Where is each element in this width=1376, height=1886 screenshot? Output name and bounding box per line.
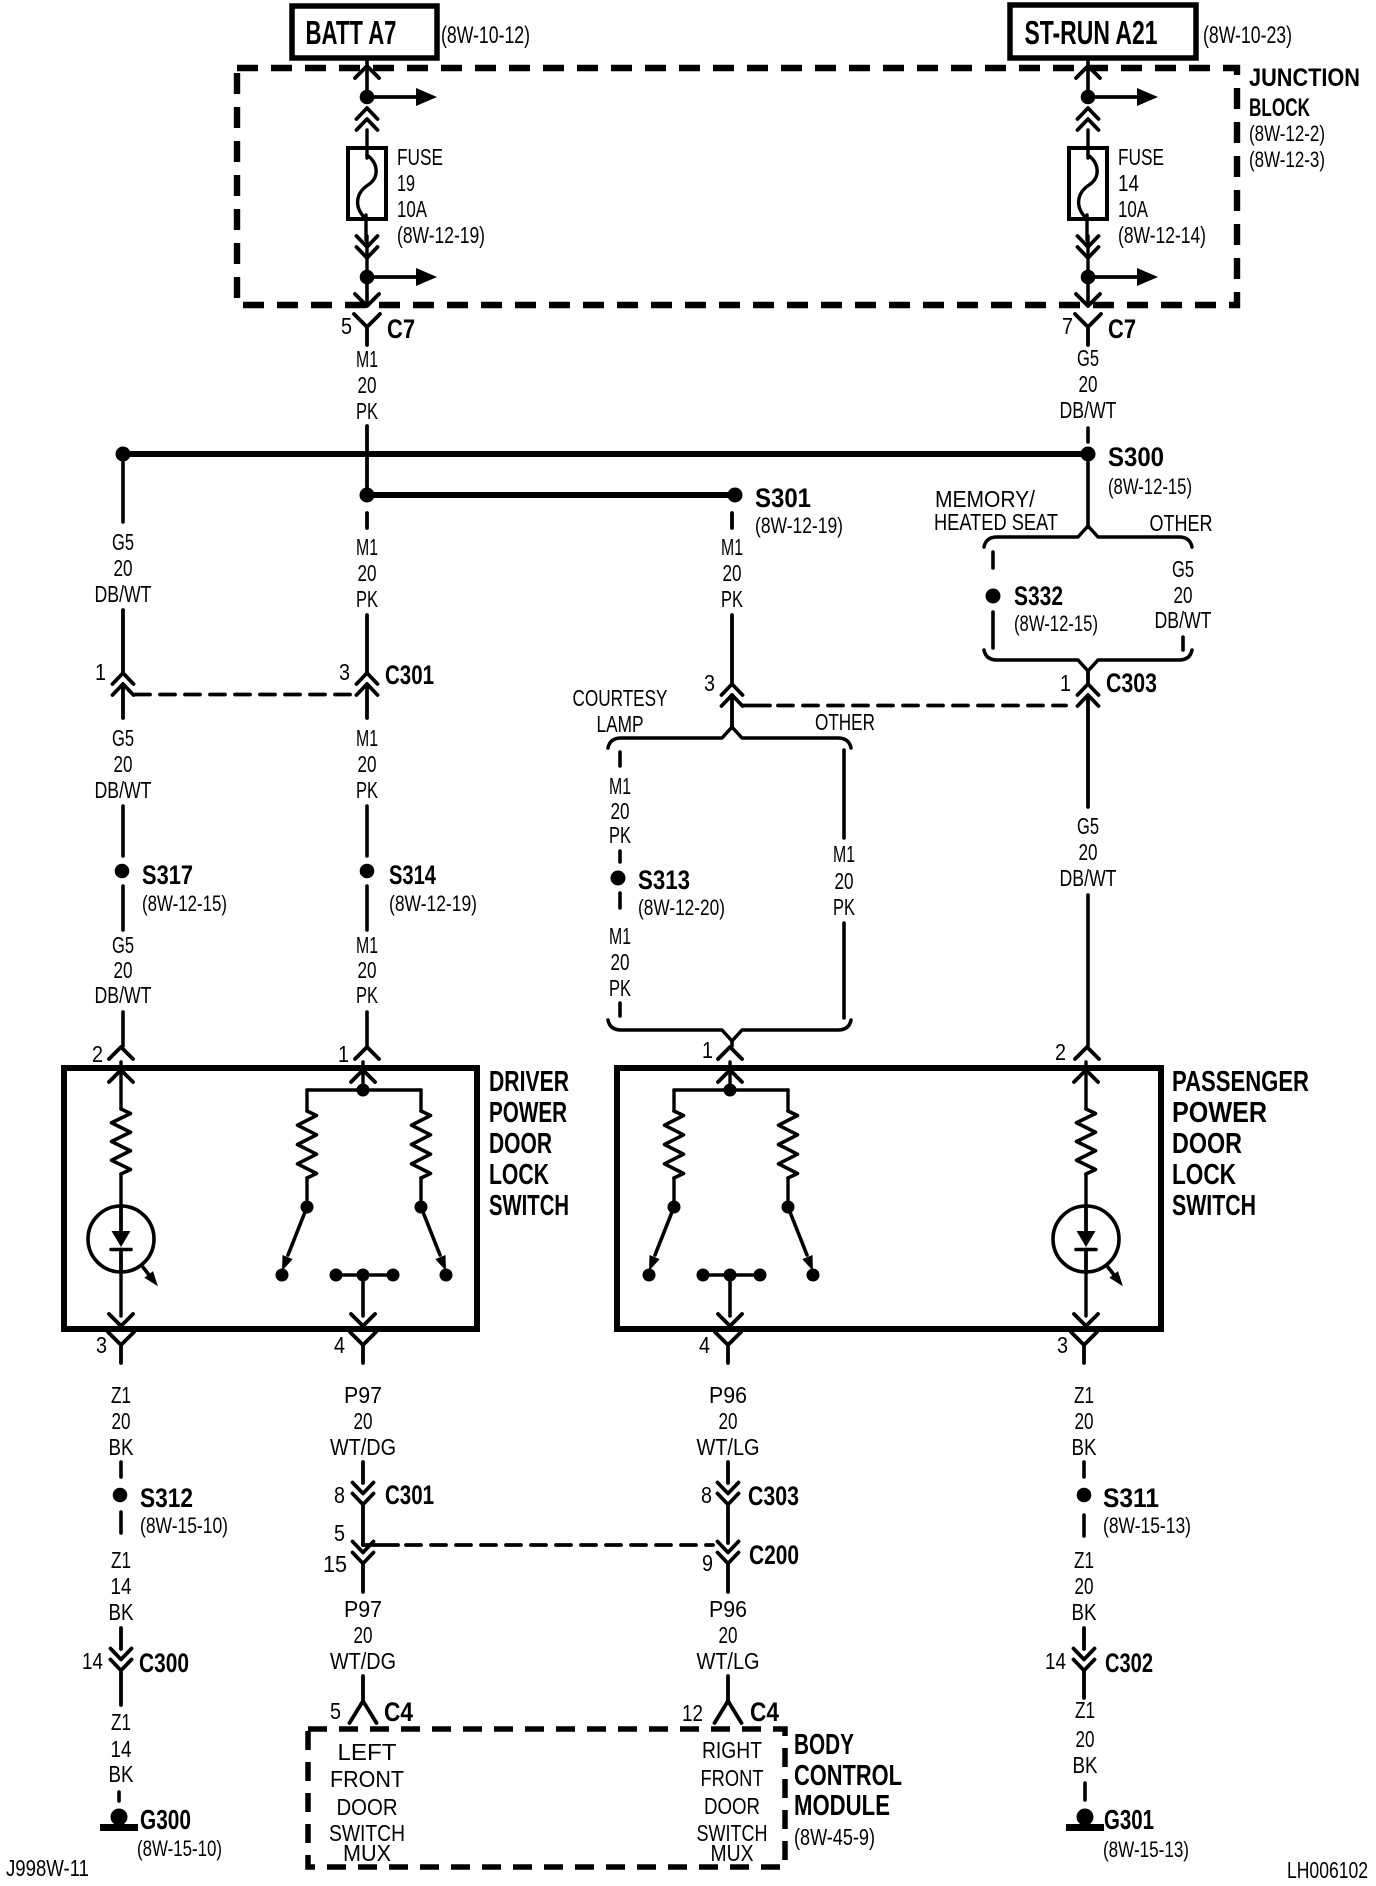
svg-text:FUSE: FUSE <box>1118 144 1164 170</box>
svg-text:DOOR: DOOR <box>489 1128 552 1160</box>
svg-text:WT/DG: WT/DG <box>330 1434 396 1460</box>
svg-text:LAMP: LAMP <box>597 711 644 737</box>
svg-text:M1: M1 <box>356 346 378 372</box>
svg-text:4: 4 <box>334 1332 345 1358</box>
svg-text:G5: G5 <box>112 529 134 555</box>
svg-text:20: 20 <box>1079 839 1098 865</box>
svg-text:(8W-12-14): (8W-12-14) <box>1118 222 1206 248</box>
svg-text:MUX: MUX <box>343 1840 391 1866</box>
svg-text:(8W-15-13): (8W-15-13) <box>1103 1837 1189 1862</box>
svg-text:BATT A7: BATT A7 <box>306 14 397 51</box>
svg-text:Z1: Z1 <box>111 1547 131 1573</box>
svg-text:FRONT: FRONT <box>701 1765 764 1791</box>
svg-text:(8W-12-19): (8W-12-19) <box>389 891 477 916</box>
svg-text:20: 20 <box>358 560 377 586</box>
svg-text:C301: C301 <box>385 1480 434 1510</box>
svg-text:WT/DG: WT/DG <box>330 1648 396 1674</box>
svg-text:WT/LG: WT/LG <box>697 1648 760 1674</box>
svg-text:9: 9 <box>702 1550 713 1576</box>
svg-text:C300: C300 <box>139 1648 189 1678</box>
svg-text:M1: M1 <box>356 725 378 751</box>
svg-text:PK: PK <box>833 894 855 920</box>
svg-text:20: 20 <box>835 868 854 894</box>
svg-text:20: 20 <box>719 1408 738 1434</box>
svg-text:2: 2 <box>92 1041 103 1067</box>
svg-text:G5: G5 <box>1077 345 1099 371</box>
svg-text:WT/LG: WT/LG <box>697 1434 760 1460</box>
svg-text:DB/WT: DB/WT <box>1060 397 1117 423</box>
svg-text:ST-RUN A21: ST-RUN A21 <box>1025 14 1158 51</box>
svg-text:DOOR: DOOR <box>337 1794 398 1820</box>
svg-text:G5: G5 <box>1172 556 1194 582</box>
svg-text:DB/WT: DB/WT <box>95 581 152 607</box>
svg-text:Z1: Z1 <box>111 1709 131 1735</box>
svg-text:14: 14 <box>111 1573 132 1599</box>
svg-text:7: 7 <box>1062 313 1073 339</box>
svg-text:3: 3 <box>704 670 715 696</box>
svg-text:OTHER: OTHER <box>1150 510 1213 536</box>
svg-text:(8W-12-15): (8W-12-15) <box>1014 611 1098 636</box>
svg-text:20: 20 <box>114 751 133 777</box>
svg-text:P96: P96 <box>709 1596 747 1622</box>
svg-text:5: 5 <box>334 1520 345 1546</box>
svg-text:LH006102: LH006102 <box>1287 1857 1368 1883</box>
svg-text:2: 2 <box>1055 1039 1066 1065</box>
svg-text:20: 20 <box>358 372 377 398</box>
svg-text:1: 1 <box>1060 670 1071 696</box>
svg-text:M1: M1 <box>609 773 631 799</box>
svg-text:19: 19 <box>397 170 415 196</box>
svg-text:Z1: Z1 <box>1074 1382 1094 1408</box>
svg-text:(8W-15-10): (8W-15-10) <box>140 1513 228 1538</box>
svg-text:BK: BK <box>1072 1599 1098 1625</box>
svg-text:G300: G300 <box>140 1804 191 1835</box>
svg-text:10A: 10A <box>397 196 427 222</box>
svg-text:10A: 10A <box>1118 196 1148 222</box>
svg-text:20: 20 <box>611 798 630 824</box>
svg-text:14: 14 <box>111 1736 132 1762</box>
svg-text:P96: P96 <box>709 1382 747 1408</box>
svg-text:C303: C303 <box>748 1481 799 1511</box>
svg-text:S311: S311 <box>1103 1483 1159 1513</box>
svg-text:(8W-12-19): (8W-12-19) <box>397 222 485 248</box>
svg-text:BK: BK <box>1073 1752 1099 1778</box>
svg-text:M1: M1 <box>356 534 378 560</box>
svg-text:(8W-12-15): (8W-12-15) <box>142 891 227 916</box>
svg-text:4: 4 <box>699 1332 710 1358</box>
svg-text:BK: BK <box>1072 1434 1098 1460</box>
svg-text:P97: P97 <box>344 1382 382 1408</box>
svg-text:5: 5 <box>330 1698 341 1724</box>
svg-text:J998W-11: J998W-11 <box>6 1855 89 1881</box>
svg-text:C303: C303 <box>1106 668 1157 698</box>
svg-text:20: 20 <box>1079 371 1098 397</box>
svg-text:S300: S300 <box>1108 442 1164 472</box>
svg-text:SWITCH: SWITCH <box>489 1190 569 1222</box>
svg-text:3: 3 <box>1057 1332 1068 1358</box>
svg-text:PK: PK <box>356 982 378 1008</box>
svg-text:3: 3 <box>96 1332 107 1358</box>
svg-text:PK: PK <box>609 822 631 848</box>
svg-text:DRIVER: DRIVER <box>489 1066 569 1098</box>
svg-text:S332: S332 <box>1014 581 1063 611</box>
svg-text:PK: PK <box>356 586 378 612</box>
svg-text:C302: C302 <box>1105 1648 1153 1678</box>
svg-text:15: 15 <box>323 1551 347 1577</box>
svg-text:C200: C200 <box>749 1540 799 1570</box>
svg-text:COURTESY: COURTESY <box>573 685 668 711</box>
svg-text:20: 20 <box>354 1622 373 1648</box>
svg-text:BK: BK <box>109 1599 135 1625</box>
svg-text:LOCK: LOCK <box>1172 1159 1236 1191</box>
svg-text:P97: P97 <box>344 1596 382 1622</box>
svg-text:DOOR: DOOR <box>704 1793 760 1819</box>
svg-text:G301: G301 <box>1104 1804 1154 1835</box>
svg-text:14: 14 <box>1045 1648 1066 1674</box>
svg-text:PASSENGER: PASSENGER <box>1172 1066 1309 1098</box>
svg-text:RIGHT: RIGHT <box>702 1737 762 1763</box>
svg-text:BK: BK <box>109 1434 135 1460</box>
svg-text:G5: G5 <box>112 932 134 958</box>
svg-text:DB/WT: DB/WT <box>1060 865 1117 891</box>
svg-text:3: 3 <box>339 659 350 685</box>
svg-text:LEFT: LEFT <box>338 1739 397 1765</box>
svg-text:20: 20 <box>1076 1726 1095 1752</box>
svg-text:C4: C4 <box>750 1697 779 1727</box>
svg-text:G5: G5 <box>1077 813 1099 839</box>
svg-text:C7: C7 <box>1108 314 1136 344</box>
svg-text:20: 20 <box>358 957 377 983</box>
svg-text:20: 20 <box>112 1408 131 1434</box>
svg-text:MUX: MUX <box>711 1840 754 1866</box>
svg-text:(8W-45-9): (8W-45-9) <box>794 1824 875 1850</box>
svg-text:20: 20 <box>358 751 377 777</box>
svg-text:(8W-15-10): (8W-15-10) <box>137 1836 222 1861</box>
svg-text:SWITCH: SWITCH <box>1172 1190 1256 1222</box>
svg-text:LOCK: LOCK <box>489 1159 549 1191</box>
svg-text:Z1: Z1 <box>1075 1697 1095 1723</box>
svg-text:FUSE: FUSE <box>397 144 443 170</box>
svg-text:8: 8 <box>334 1482 345 1508</box>
svg-text:BK: BK <box>109 1761 135 1787</box>
svg-text:(8W-12-2): (8W-12-2) <box>1249 121 1325 146</box>
svg-text:M1: M1 <box>833 841 855 867</box>
svg-text:G5: G5 <box>112 725 134 751</box>
svg-text:(8W-12-15): (8W-12-15) <box>1108 474 1192 499</box>
svg-text:(8W-12-3): (8W-12-3) <box>1249 147 1325 172</box>
svg-text:Z1: Z1 <box>111 1382 131 1408</box>
svg-text:20: 20 <box>1075 1573 1094 1599</box>
svg-text:20: 20 <box>114 555 133 581</box>
svg-text:PK: PK <box>356 398 378 424</box>
svg-text:BLOCK: BLOCK <box>1249 94 1310 122</box>
svg-text:C7: C7 <box>387 314 415 344</box>
svg-text:DB/WT: DB/WT <box>95 982 152 1008</box>
svg-text:14: 14 <box>82 1648 103 1674</box>
svg-text:20: 20 <box>723 560 742 586</box>
svg-text:BODY: BODY <box>794 1729 854 1761</box>
svg-text:PK: PK <box>609 975 631 1001</box>
svg-text:20: 20 <box>1075 1408 1094 1434</box>
svg-text:C4: C4 <box>384 1697 413 1727</box>
svg-text:S313: S313 <box>638 865 690 895</box>
svg-text:PK: PK <box>356 777 378 803</box>
svg-text:5: 5 <box>341 313 352 339</box>
svg-text:20: 20 <box>114 957 133 983</box>
svg-text:20: 20 <box>354 1408 373 1434</box>
svg-text:S317: S317 <box>142 860 193 890</box>
svg-text:S314: S314 <box>389 860 436 890</box>
svg-text:20: 20 <box>719 1622 738 1648</box>
svg-text:1: 1 <box>95 659 106 685</box>
svg-text:DB/WT: DB/WT <box>95 777 152 803</box>
svg-text:FRONT: FRONT <box>330 1766 404 1792</box>
svg-text:20: 20 <box>1174 582 1193 608</box>
svg-text:8: 8 <box>701 1482 712 1508</box>
svg-text:M1: M1 <box>609 923 631 949</box>
svg-text:20: 20 <box>611 949 630 975</box>
svg-text:S312: S312 <box>140 1483 193 1513</box>
svg-text:M1: M1 <box>721 534 743 560</box>
svg-text:CONTROL: CONTROL <box>794 1760 902 1792</box>
svg-text:14: 14 <box>1118 170 1139 196</box>
svg-text:1: 1 <box>338 1041 349 1067</box>
svg-text:OTHER: OTHER <box>815 709 875 735</box>
svg-text:(8W-10-23): (8W-10-23) <box>1203 22 1292 49</box>
svg-text:POWER: POWER <box>489 1097 567 1129</box>
svg-text:DB/WT: DB/WT <box>1155 607 1212 633</box>
svg-text:12: 12 <box>682 1700 703 1726</box>
svg-text:(8W-12-20): (8W-12-20) <box>638 895 725 920</box>
svg-text:1: 1 <box>702 1037 713 1063</box>
svg-text:POWER: POWER <box>1172 1097 1267 1129</box>
svg-text:PK: PK <box>721 586 743 612</box>
svg-text:(8W-12-19): (8W-12-19) <box>755 513 843 538</box>
svg-text:(8W-10-12): (8W-10-12) <box>441 22 530 49</box>
svg-text:S301: S301 <box>755 483 811 513</box>
svg-text:C301: C301 <box>385 660 434 690</box>
svg-text:(8W-15-13): (8W-15-13) <box>1103 1513 1191 1538</box>
svg-text:MODULE: MODULE <box>794 1790 890 1822</box>
svg-text:Z1: Z1 <box>1074 1547 1094 1573</box>
svg-text:M1: M1 <box>356 932 378 958</box>
svg-text:JUNCTION: JUNCTION <box>1249 64 1360 92</box>
svg-text:HEATED SEAT: HEATED SEAT <box>934 509 1058 535</box>
svg-text:DOOR: DOOR <box>1172 1128 1242 1160</box>
